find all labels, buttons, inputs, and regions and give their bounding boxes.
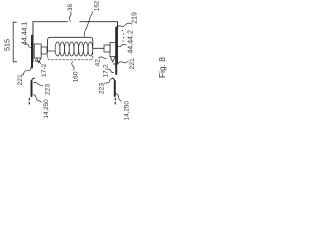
svg-text:Fig. 8: Fig. 8: [157, 57, 167, 78]
svg-text:44,44.2: 44,44.2: [127, 30, 134, 53]
svg-text:515: 515: [3, 39, 12, 51]
svg-text:160: 160: [72, 71, 79, 82]
svg-text:17-2: 17-2: [102, 64, 109, 78]
svg-text:42: 42: [94, 59, 101, 67]
svg-text:162: 162: [94, 0, 101, 11]
svg-text:17-2: 17-2: [41, 63, 48, 77]
svg-text:14,250: 14,250: [43, 99, 50, 119]
svg-text:221: 221: [17, 74, 24, 86]
svg-text:223: 223: [99, 83, 106, 94]
svg-text:14,250: 14,250: [124, 101, 131, 120]
svg-text:221: 221: [129, 58, 136, 70]
svg-text:219: 219: [132, 12, 139, 24]
svg-text:223: 223: [44, 84, 51, 95]
svg-text:44,44.1: 44,44.1: [21, 22, 28, 45]
svg-text:36: 36: [67, 3, 74, 11]
